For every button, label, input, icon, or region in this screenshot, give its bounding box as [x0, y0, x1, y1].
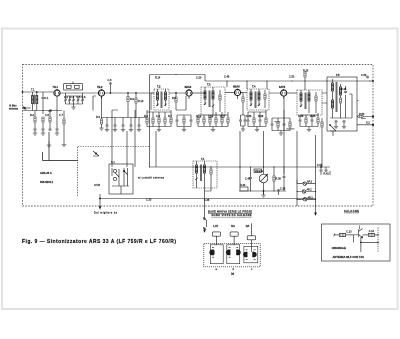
label TR: [155, 76, 295, 80]
socket box C: [243, 246, 257, 262]
svg-text:CH.B: CH.B: [94, 184, 100, 187]
label LAT: [213, 224, 218, 228]
label R52: [346, 230, 352, 233]
pinout dashed enclosure: [204, 243, 260, 266]
svg-text:C.6: C.6: [82, 96, 87, 99]
switch contact S3: [329, 124, 336, 136]
svg-text:T.3: T.3: [207, 83, 211, 87]
mod input wire: [334, 234, 340, 237]
svg-text:R.50: R.50: [359, 113, 365, 116]
mod resistor R52: [339, 233, 353, 236]
resistor R20 on B+: [304, 72, 306, 84]
junction dots top buses: [149, 74, 328, 168]
extra cap V2 row: [137, 118, 141, 132]
svg-text:T.4: T.4: [252, 85, 256, 89]
wire y=117.5 V2 stage: [101, 117, 147, 119]
resistor R8: [175, 92, 177, 110]
svg-text:AP.1: AP.1: [307, 181, 313, 184]
svg-text:R.41: R.41: [324, 173, 330, 176]
cathode resistor V4: [241, 93, 244, 116]
label T3: [207, 83, 211, 87]
svg-text:C.36: C.36: [298, 115, 304, 118]
svg-text:C.30: C.30: [246, 115, 252, 118]
wire x=100 exits border: [99, 194, 101, 209]
ground stub G2: [62, 145, 66, 147]
wire T7 secondary to pinout terminal: [197, 180, 212, 218]
svg-text:C.14: C.14: [369, 230, 375, 233]
under-stage row between T2 and T3: [176, 115, 193, 132]
wire B+ bus y=81: [205, 75, 370, 82]
svg-text:AP.2: AP.2: [307, 189, 313, 192]
tube V5: [281, 89, 287, 99]
svg-text:Fig. 9 — Sintonizzatore ARS 3: Fig. 9 — Sintonizzatore ARS 33 A (LF 759…: [22, 239, 176, 245]
pinout letters: [216, 268, 254, 271]
wire det box to T5: [322, 93, 327, 103]
transformer T1: [32, 92, 38, 111]
long verticals to lower buses: [112, 89, 322, 184]
tube V1: [54, 89, 60, 99]
cap C38: [277, 189, 280, 195]
antenna input terminal: [23, 106, 31, 110]
junction dots bus y191: [250, 190, 275, 191]
svg-text:C.38: C.38: [280, 188, 286, 191]
svg-text:R.9: R.9: [130, 98, 135, 101]
under-stage row after T4: [271, 110, 295, 135]
svg-text:ANTENNA 88,5 CON TAS: ANTENNA 88,5 CON TAS: [333, 255, 365, 259]
under-stage row IF2: [247, 110, 268, 132]
speaker terminal AP.3: [297, 198, 316, 201]
svg-text:C.7: C.7: [59, 114, 64, 117]
resistor R3: [34, 111, 36, 129]
svg-text:R.5: R.5: [96, 116, 101, 119]
label Dal rivelatore: [94, 212, 118, 215]
junction dots audio bus: [239, 166, 284, 167]
svg-text:C.6: C.6: [108, 79, 113, 82]
svg-text:T.1: T.1: [201, 157, 205, 161]
label ORIGINALE: [332, 246, 347, 250]
mod resistor C52: [363, 233, 379, 236]
svg-text:C.9: C.9: [156, 115, 161, 118]
svg-text:7H.1: 7H.1: [53, 85, 59, 89]
svg-text:AP.3: AP.3: [308, 196, 314, 199]
tube V4: [234, 89, 240, 100]
bottom bus y=198.5: [100, 198, 316, 200]
wire B+ feed y=74.5: [150, 75, 206, 90]
wire plate V1 to grid V2: [60, 82, 98, 94]
svg-text:ARS-33 A: ARS-33 A: [40, 171, 52, 175]
label C6: [108, 79, 113, 82]
svg-text:SALDARE: SALDARE: [344, 209, 359, 213]
capacitor C8 row: [43, 99, 57, 128]
grid box R1 C4: [64, 84, 83, 90]
label C41: [245, 178, 281, 181]
plug box 1: [212, 232, 220, 245]
rail junction dots: [296, 191, 316, 200]
svg-text:7B.2: 7B.2: [97, 85, 103, 89]
label volume: [255, 170, 264, 173]
svg-text:C.13: C.13: [346, 230, 352, 233]
ground stub G1: [47, 141, 51, 147]
label SALDARE: [344, 209, 359, 213]
capacitor C1: [42, 92, 45, 111]
svg-text:R.7: R.7: [168, 115, 173, 118]
svg-text:Volume: Volume: [255, 170, 264, 173]
svg-text:S.1: S.1: [111, 161, 115, 164]
svg-text:C.3: C.3: [70, 96, 75, 99]
socket box A: [210, 245, 224, 264]
svg-text:R.26: R.26: [258, 115, 264, 118]
label ARS-33 A: [40, 171, 52, 175]
resistor R4: [63, 119, 65, 124]
resistor R31: [273, 167, 275, 191]
wire T3 to V4: [225, 92, 234, 94]
tone box: [240, 187, 248, 191]
volume potentiometer P1: [254, 167, 268, 194]
mod dashed rail: [377, 228, 379, 253]
AVC components cluster: [316, 166, 331, 175]
plug box 2: [230, 232, 238, 245]
svg-text:R.48: R.48: [341, 88, 347, 91]
resistor R9: [127, 92, 129, 117]
svg-text:6BA6: 6BA6: [233, 85, 240, 89]
antenna label "Al filtro antenna": [9, 105, 19, 111]
speaker terminal AP.2: [297, 190, 316, 193]
cap C6 above V2: [109, 82, 112, 94]
under-stage resistor row RF: [146, 110, 172, 132]
under-stage row IF1: [197, 112, 229, 132]
socket box B: [226, 245, 240, 264]
svg-text:DA: DA: [246, 224, 250, 228]
label ai contatti antenna: [138, 177, 165, 180]
pinout terminal 2: [203, 227, 206, 232]
svg-text:C.35: C.35: [204, 199, 210, 202]
svg-text:LAT: LAT: [213, 224, 218, 228]
label R10: [138, 100, 144, 103]
svg-text:T.2: T.2: [157, 85, 161, 89]
wire V5 plate: [287, 92, 297, 94]
wire bus y=191: [239, 190, 286, 192]
cap row y=128: [33, 128, 59, 135]
tube V2: [98, 89, 104, 99]
node T1 top: [36, 91, 37, 92]
svg-text:C.56: C.56: [317, 164, 323, 167]
label tube V4: [233, 85, 240, 89]
label T2: [157, 85, 161, 89]
svg-text:S.2: S.2: [366, 122, 370, 125]
front-end switch box S1: [109, 164, 133, 194]
output transformer box T5: [327, 77, 357, 131]
arrow below border: [315, 206, 317, 215]
node at border: [22, 91, 23, 92]
trimmer cluster TR1: [64, 93, 84, 109]
IF transformer T4 box: [247, 89, 269, 110]
label tube V5: [279, 85, 286, 89]
wire lower bus y=110.5: [23, 110, 63, 112]
capacitor C52 on B+ right: [366, 76, 374, 82]
label R9: [130, 98, 135, 101]
labels trimmer cluster: [64, 96, 86, 99]
label T4: [252, 85, 256, 89]
tube V3: [186, 89, 192, 99]
svg-text:RA: RA: [231, 224, 235, 228]
svg-text:6BA6: 6BA6: [185, 85, 192, 89]
resistor R5: [99, 119, 103, 130]
resistor R10: [135, 92, 137, 117]
detector box T6: [297, 90, 322, 115]
label T5: [336, 73, 347, 91]
svg-text:C.48: C.48: [224, 76, 230, 79]
svg-text:antenna: antenna: [9, 108, 19, 111]
modification box: [322, 224, 391, 261]
svg-text:SONO VISTE DA SALDARE: SONO VISTE DA SALDARE: [212, 213, 252, 217]
note title line 2: [212, 213, 252, 217]
cap row V2 stage: [105, 118, 133, 132]
pinout terminal 1: [203, 217, 207, 227]
label T1: [31, 89, 35, 92]
svg-text:R.16: R.16: [196, 116, 202, 119]
IF transformer T2 box: [154, 89, 169, 110]
wire T2 to V3: [151, 93, 186, 110]
labels B+ resistors: [359, 113, 370, 125]
component labels scatter: [30, 70, 367, 203]
IF transformer T3 box: [201, 87, 225, 115]
under-stage row det: [299, 113, 320, 132]
svg-text:C.41: C.41: [245, 178, 251, 181]
svg-text:C.1: C.1: [45, 97, 50, 100]
svg-text:C.5: C.5: [77, 96, 82, 99]
B+ resistors to border: [357, 101, 374, 126]
label T7: [201, 157, 205, 161]
svg-text:C.52: C.52: [361, 74, 367, 77]
heater drops: [112, 110, 156, 167]
label CH.B: [94, 184, 100, 187]
resistor R2: [42, 117, 44, 128]
svg-text:ORIGINALE: ORIGINALE: [332, 246, 347, 250]
cathode resistor V1: [49, 111, 52, 132]
svg-text:R.8: R.8: [172, 97, 177, 100]
cathode caps V4: [239, 115, 247, 131]
svg-text:C.8: C.8: [45, 114, 50, 117]
speaker rails: [297, 180, 316, 207]
vertical feed x=101.5: [101, 96, 103, 119]
label mod caption: [333, 255, 365, 259]
svg-text:C.50: C.50: [289, 76, 295, 79]
B+ dropper resistor R43: [321, 118, 323, 131]
wire tone feed: [239, 167, 241, 187]
resistor R30: [249, 167, 252, 191]
svg-text:6AT6: 6AT6: [279, 85, 286, 89]
svg-text:BASE NUOVA SERIE LE PRESE: BASE NUOVA SERIE LE PRESE: [208, 209, 252, 213]
label tube V2: [97, 85, 103, 89]
label RA: [231, 224, 235, 228]
svg-text:T.5: T.5: [336, 73, 340, 77]
schematic dashed border: [23, 65, 374, 207]
stub drops from B+ bus: [227, 81, 327, 90]
svg-text:C.24: C.24: [208, 116, 214, 119]
label DA: [246, 224, 250, 228]
label C52: [369, 230, 375, 233]
svg-text:R.14: R.14: [155, 77, 161, 80]
cap C39: [283, 167, 286, 191]
svg-text:R.38: R.38: [276, 178, 282, 181]
dashed AVC line x=77.7: [77, 147, 79, 197]
svg-text:C.2: C.2: [64, 96, 69, 99]
svg-text:Dal migliore ka: Dal migliore ka: [94, 212, 118, 215]
svg-text:ai contatti antenna: ai contatti antenna: [138, 177, 165, 180]
plug box 3: [247, 223, 255, 246]
wires left stage drops: [49, 111, 64, 145]
mod lower wire: [354, 235, 379, 252]
label C1: [45, 97, 50, 100]
svg-text:C.20: C.20: [196, 77, 202, 80]
switch contact S2: [93, 151, 99, 156]
svg-text:R.33: R.33: [310, 115, 316, 118]
mod transistor Q1: [354, 226, 363, 239]
label tube V1: [53, 85, 59, 89]
svg-text:R.10: R.10: [138, 100, 144, 103]
label tube V3: [185, 85, 192, 89]
label (a): [231, 272, 234, 276]
svg-text:R.6: R.6: [144, 115, 149, 118]
wire V2 plate to T2: [105, 92, 154, 94]
heater bus y=160.5: [43, 132, 78, 161]
speaker terminal AP.1: [297, 182, 316, 185]
wire main grid bus y=92: [23, 91, 54, 93]
svg-text:306-5204.1: 306-5204.1: [40, 180, 54, 184]
svg-text:C.33: C.33: [146, 199, 152, 202]
ground pot: [261, 190, 265, 197]
svg-text:R.2: R.2: [30, 114, 35, 117]
wire V3 to T3: [192, 91, 205, 93]
svg-text:R.40: R.40: [240, 184, 246, 187]
labels AP: [307, 181, 314, 200]
mod rail dots: [377, 234, 379, 243]
svg-text:R.17: R.17: [220, 116, 226, 119]
audio bus y=167: [150, 166, 316, 168]
svg-text:(a): (a): [231, 272, 234, 276]
dashed AVC line y=146.5: [78, 146, 150, 148]
bottom transformer T7 box: [193, 161, 217, 188]
wire screen bus x=93: [93, 96, 96, 111]
note title line 1: [208, 209, 252, 213]
label 306-5204.1: [40, 180, 54, 184]
wire T4 to V5: [241, 92, 281, 95]
svg-text:R.20: R.20: [303, 70, 309, 73]
